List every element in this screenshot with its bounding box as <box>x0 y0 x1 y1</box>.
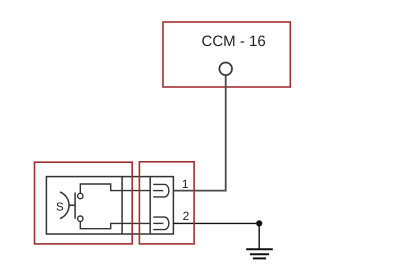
svg-text:1: 1 <box>182 177 189 191</box>
connector terminal pin 2 <box>153 217 169 230</box>
switch actuator bar <box>74 193 76 219</box>
switch actuator arc <box>60 192 69 219</box>
connector interface divider line <box>121 177 123 234</box>
connector terminal pin 1 <box>153 184 169 197</box>
component box switch (red) <box>35 162 133 244</box>
ground symbol <box>246 249 273 258</box>
terminal circle CCM pin 16 <box>219 63 232 76</box>
module box CCM (red) <box>163 22 290 87</box>
wire switch bottom contact to pin 2 <box>80 221 150 228</box>
switch actuator link <box>69 204 75 206</box>
switch outer box <box>46 177 173 234</box>
junction dot <box>256 220 262 226</box>
wire switch top contact to pin 1 <box>80 184 150 193</box>
wire pin 2 to ground junction <box>173 222 259 224</box>
wire junction to ground <box>258 223 260 249</box>
svg-text:CCM - 16: CCM - 16 <box>202 33 266 50</box>
svg-text:2: 2 <box>183 209 190 223</box>
wire CCM-16 to connector pin 1 <box>173 75 225 190</box>
component box connector (red) <box>139 162 194 244</box>
connector box left edge line <box>149 177 151 234</box>
switch contact bottom circle <box>78 216 83 221</box>
switch contact top circle <box>78 193 83 198</box>
svg-text:S: S <box>56 202 64 214</box>
connector terminal pin 1 center blade <box>153 190 163 192</box>
connector terminal pin 2 center blade <box>153 222 163 224</box>
